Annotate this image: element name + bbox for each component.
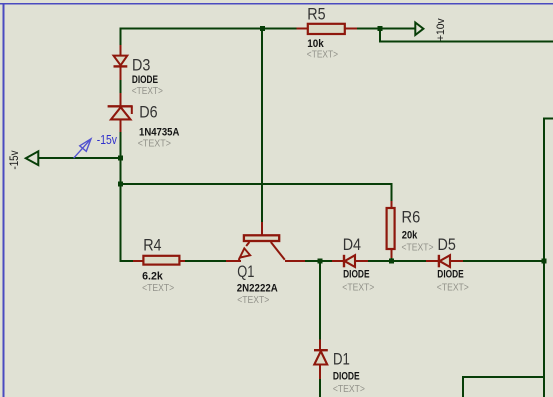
svg-text:<TEXT>: <TEXT> [342,282,374,294]
svg-text:D4: D4 [343,236,362,254]
svg-text:<TEXT>: <TEXT> [138,138,171,150]
svg-text:D1: D1 [333,350,350,369]
svg-text:D5: D5 [438,236,456,254]
svg-text:D6: D6 [139,104,157,122]
svg-text:<TEXT>: <TEXT> [307,49,339,61]
svg-text:6.2k: 6.2k [142,270,164,282]
svg-text:<TEXT>: <TEXT> [333,383,365,395]
svg-text:DIODE: DIODE [343,269,370,281]
svg-text:DIODE: DIODE [437,269,464,281]
svg-text:20k: 20k [402,230,418,242]
svg-text:R5: R5 [307,6,325,24]
svg-text:R4: R4 [143,237,162,255]
svg-text:<TEXT>: <TEXT> [142,282,174,294]
svg-text:+10v: +10v [435,18,447,41]
svg-text:<TEXT>: <TEXT> [402,242,434,254]
svg-text:<TEXT>: <TEXT> [437,282,469,294]
svg-text:D3: D3 [132,56,150,74]
svg-text:<TEXT>: <TEXT> [237,294,269,306]
svg-text:DIODE: DIODE [333,370,360,382]
svg-text:R6: R6 [402,209,421,227]
svg-text:-15v: -15v [97,134,117,147]
svg-text:2N2222A: 2N2222A [237,283,278,295]
svg-text:-15v: -15v [8,150,21,170]
svg-text:Q1: Q1 [237,263,254,281]
svg-text:<TEXT>: <TEXT> [132,85,164,97]
